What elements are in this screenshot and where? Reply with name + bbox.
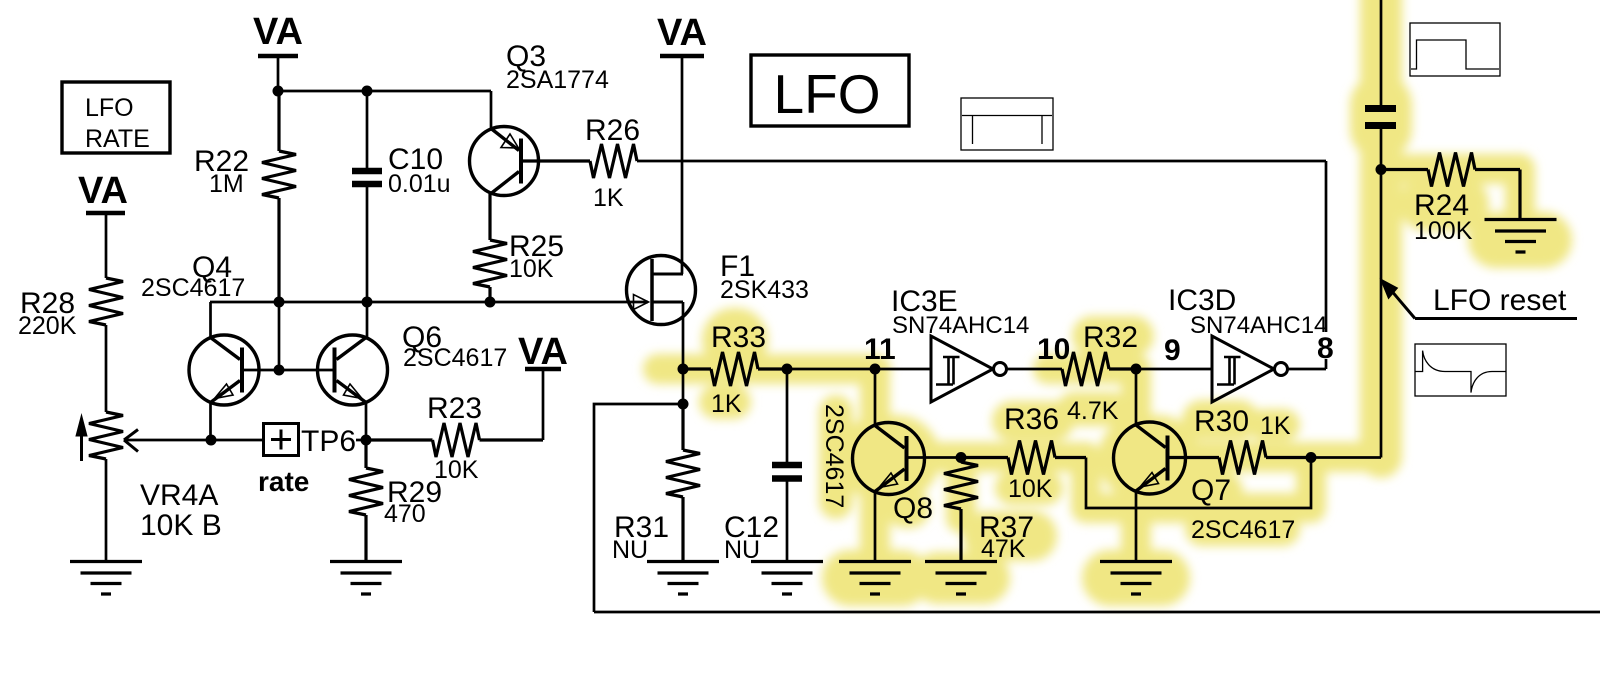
- ground (below R37): [925, 562, 997, 595]
- svg-text:R32: R32: [1083, 321, 1138, 354]
- svg-text:220K: 220K: [18, 312, 77, 340]
- icon square wave: [961, 98, 1053, 150]
- node (R25 joins rail): [485, 297, 496, 308]
- svg-text:NU: NU: [724, 536, 760, 564]
- transistor Q7 2SC4617: [1114, 369, 1296, 561]
- svg-text:11: 11: [864, 333, 896, 366]
- wire top rail: [278, 90, 491, 93]
- ground (below R31): [647, 562, 719, 595]
- svg-text:2SC4617: 2SC4617: [141, 274, 245, 302]
- wire F1 source down to R33 node: [682, 302, 685, 369]
- wire IC3D output to pin8 riser: [1288, 161, 1327, 369]
- wire TP6 label to node: [356, 439, 366, 442]
- ground (below R24): [1485, 220, 1557, 253]
- resistor R25 10K: [473, 194, 564, 303]
- node (VA rail / C10): [362, 86, 373, 97]
- resistor R30 1K: [1170, 405, 1312, 475]
- svg-text:SN74AHC14: SN74AHC14: [1190, 312, 1327, 339]
- ground (below VR4A): [70, 562, 142, 595]
- testpoint TP6 rate: [258, 424, 356, 498]
- ground (below Q8): [839, 562, 911, 595]
- potentiometer VR4A 10K B: [76, 412, 222, 542]
- node (Q4 emitter / wiper): [206, 435, 217, 446]
- resistor R28 220K: [18, 278, 123, 340]
- resistor R24 100K: [1381, 153, 1520, 246]
- node (pin 9 / Q7 collector): [1131, 364, 1142, 375]
- resistor R33 1K: [683, 321, 787, 418]
- capacitor (reset coupling): [1365, 109, 1396, 126]
- highlight: yellow marker over LFO-reset net (R33, Q8, R36, R37, R32, Q7, R30, R24, coupling cap): [658, 0, 1544, 578]
- power VA (top left, feeds R28): [78, 170, 128, 278]
- resistor R31 NU: [612, 404, 700, 564]
- svg-text:2SK433: 2SK433: [720, 276, 809, 304]
- ground (below Q7): [1100, 562, 1172, 595]
- wire rail down to Q3 emitter: [490, 91, 493, 128]
- svg-text:2SA1774: 2SA1774: [506, 66, 609, 94]
- node (VA rail / R22): [273, 86, 284, 97]
- svg-text:0.01u: 0.01u: [388, 170, 451, 198]
- wire riser top: [1380, 0, 1383, 105]
- capacitor C10 0.01u: [352, 91, 451, 302]
- svg-text:VA: VA: [253, 11, 303, 53]
- svg-text:VA: VA: [657, 12, 707, 54]
- wire R36 under-pass to node X: [1086, 458, 1311, 509]
- power VA (feeds F1 drain): [657, 12, 707, 274]
- wire Q4 base to Q6 base: [244, 369, 334, 372]
- resistor R29 470: [349, 440, 442, 561]
- svg-text:Q7: Q7: [1191, 474, 1231, 507]
- inverter IC3D SN74AHC14: [1168, 284, 1327, 402]
- wire VR4A to ground: [105, 459, 108, 561]
- wire C10 line down to Q6 collector: [366, 302, 369, 338]
- svg-text:4.7K: 4.7K: [1067, 397, 1119, 425]
- wire pot wiper row to TP6: [124, 439, 263, 442]
- resistor R22 1M: [194, 91, 296, 302]
- wire timing node rail (Q4 collector to F1 gate): [210, 301, 648, 304]
- svg-text:R26: R26: [585, 114, 640, 147]
- resistor R26 1K: [523, 114, 640, 212]
- svg-text:R33: R33: [711, 321, 766, 354]
- node X (R30 / R36 / reset line): [1306, 452, 1317, 463]
- resistor R36 10K: [961, 403, 1086, 503]
- wire Q8 base to R36/R37 node: [909, 456, 962, 459]
- inverter IC3E SN74AHC14: [891, 285, 1029, 402]
- svg-text:LFO: LFO: [85, 94, 134, 122]
- wire R26 to pin8 riser (long rail): [637, 160, 1326, 163]
- svg-text:VA: VA: [518, 331, 568, 373]
- svg-text:Q8: Q8: [893, 492, 933, 525]
- node (Q8 base / R36 / R37): [956, 452, 967, 463]
- wire R28 to VR4A: [105, 325, 108, 412]
- wire R33 node to IC3E input: [787, 368, 931, 371]
- svg-text:NU: NU: [612, 536, 648, 564]
- svg-text:R30: R30: [1194, 405, 1249, 438]
- svg-text:10K B: 10K B: [140, 509, 222, 542]
- node (F1 source / R33): [678, 364, 689, 375]
- ground (below R29): [330, 562, 402, 595]
- wire R33 node down / feedback corner: [682, 369, 685, 404]
- node (mirror bases): [274, 365, 285, 376]
- capacitor C12 NU: [724, 369, 802, 564]
- svg-text:100K: 100K: [1414, 217, 1473, 245]
- pin 8: [1313, 332, 1339, 365]
- svg-text:TP6: TP6: [301, 425, 356, 458]
- power VA (top, feeds mirror): [253, 11, 303, 91]
- svg-text:10K: 10K: [434, 456, 479, 484]
- svg-text:R23: R23: [427, 392, 482, 425]
- svg-text:10K: 10K: [1008, 475, 1053, 503]
- label LFO reset with leader arrow: [1381, 279, 1578, 319]
- svg-text:470: 470: [384, 500, 426, 528]
- svg-text:LFO: LFO: [774, 63, 881, 125]
- label box LFO RATE: [62, 82, 170, 153]
- node (C10 joins rail): [362, 297, 373, 308]
- resistor R32 4.7K: [1062, 321, 1138, 425]
- svg-text:1K: 1K: [1260, 412, 1291, 440]
- FET F1 2SK433: [627, 250, 809, 325]
- svg-text:VR4A: VR4A: [140, 479, 218, 512]
- wire R22 line to Q4 base node: [278, 302, 281, 369]
- svg-text:2SC4617: 2SC4617: [820, 404, 848, 508]
- svg-text:1K: 1K: [593, 184, 624, 212]
- svg-text:rate: rate: [258, 466, 309, 497]
- node (R31 / feedback): [678, 399, 689, 410]
- svg-text:10: 10: [1037, 333, 1070, 366]
- node (C12 tap): [782, 364, 793, 375]
- resistor R23 10K: [366, 392, 543, 484]
- svg-text:2SC4617: 2SC4617: [1191, 516, 1295, 544]
- node (Q6 emitter / R29 / R23 row): [361, 435, 372, 446]
- resistor R37 47K: [944, 458, 1034, 564]
- svg-text:1M: 1M: [209, 170, 244, 198]
- wire bottom rail: [594, 611, 1600, 614]
- node (cap / R24): [1376, 164, 1387, 175]
- ground (below C12): [751, 562, 823, 595]
- svg-text:R36: R36: [1004, 403, 1059, 436]
- svg-text:RATE: RATE: [85, 125, 150, 153]
- transistor Q6 2SC4617: [318, 321, 508, 440]
- power VA (feeds R23): [518, 331, 568, 440]
- icon exponential spike wave: [1415, 344, 1506, 396]
- icon pulse wave: [1410, 23, 1500, 76]
- svg-text:VA: VA: [78, 170, 128, 212]
- wire node X to reset riser: [1311, 129, 1381, 458]
- wire node to IC3D input: [1136, 368, 1212, 371]
- svg-text:8: 8: [1317, 332, 1334, 365]
- transistor Q8 2SC4617: [820, 369, 933, 561]
- wire feedback loop to bottom rail: [594, 404, 683, 612]
- svg-text:LFO reset: LFO reset: [1433, 284, 1567, 317]
- transistor Q3 2SA1774: [470, 40, 609, 196]
- svg-text:1K: 1K: [711, 390, 742, 418]
- svg-text:10K: 10K: [509, 255, 554, 283]
- svg-text:SN74AHC14: SN74AHC14: [892, 312, 1029, 339]
- node (R22/base line joins rail): [274, 297, 285, 308]
- wire IC3E output to R32: [1007, 368, 1063, 371]
- svg-text:2SC4617: 2SC4617: [403, 344, 507, 372]
- svg-text:9: 9: [1164, 334, 1181, 367]
- svg-text:47K: 47K: [981, 535, 1026, 563]
- title box LFO: [751, 55, 909, 126]
- transistor Q4 2SC4617: [141, 251, 259, 440]
- node (pin 11 / Q8 collector): [870, 364, 881, 375]
